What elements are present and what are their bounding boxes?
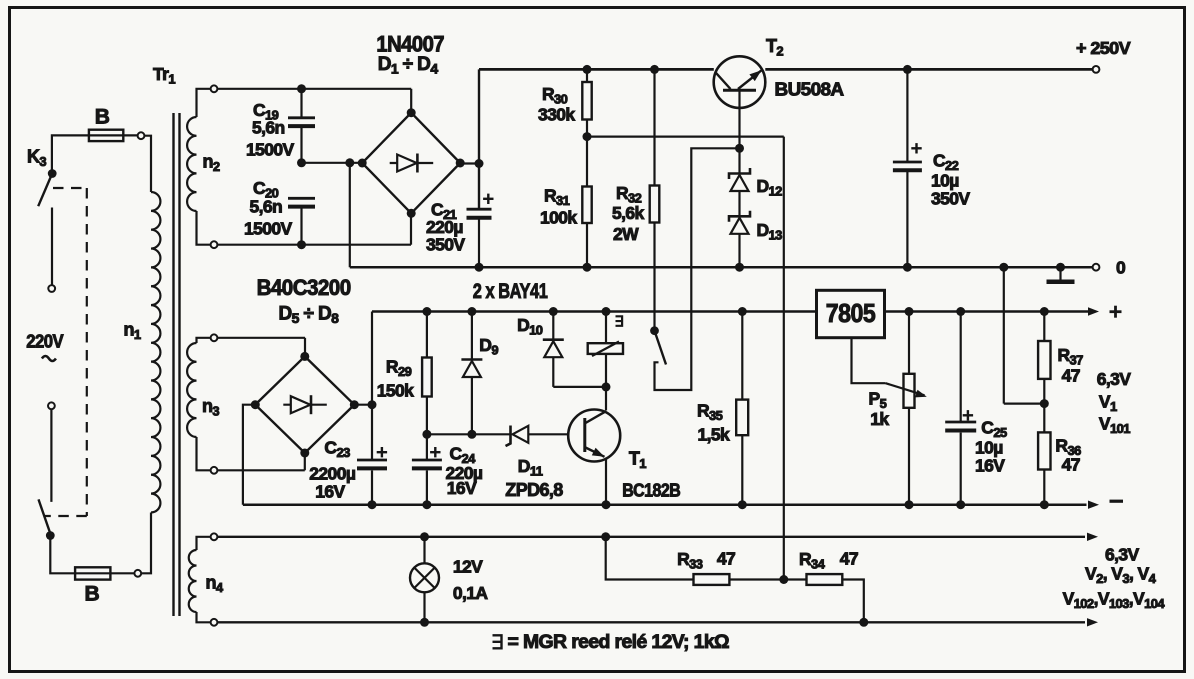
label C24 value bbox=[446, 463, 483, 483]
label D9 bbox=[479, 335, 498, 358]
node C24 bottom bbox=[422, 500, 431, 509]
svg-text:n1: n1 bbox=[124, 320, 141, 343]
zener D12 bbox=[729, 148, 750, 191]
wire n3 bottom bbox=[217, 453, 304, 470]
label K3 bbox=[27, 147, 46, 170]
svg-text:K3: K3 bbox=[27, 147, 46, 170]
transistor T1 bbox=[568, 410, 620, 462]
node C25 bottom bbox=[956, 500, 965, 509]
wire sense to 0 bbox=[1004, 267, 1045, 403]
label BU508A bbox=[775, 79, 844, 100]
resistor R37 bbox=[1038, 312, 1050, 404]
label R32 power bbox=[613, 224, 639, 244]
label D1-D4 bbox=[378, 54, 439, 77]
svg-text:C23: C23 bbox=[324, 438, 350, 461]
label C22 value bbox=[931, 171, 959, 191]
svg-text:Tr1: Tr1 bbox=[153, 64, 175, 87]
label BC182B bbox=[622, 481, 681, 501]
node R36 bottom bbox=[1040, 500, 1049, 509]
wire fuse to n1 bottom bbox=[141, 513, 151, 574]
winding n3 bbox=[187, 338, 211, 471]
label P5 value bbox=[870, 409, 889, 429]
label C23 bbox=[324, 438, 350, 461]
node R35 bottom bbox=[738, 500, 747, 509]
node T1 emitter bbox=[602, 500, 611, 509]
wire bridge2 minus bbox=[243, 405, 255, 505]
capacitor C20 bbox=[288, 198, 315, 244]
wire n3 top bbox=[217, 338, 305, 357]
label C25 voltage bbox=[975, 456, 1005, 476]
svg-text:47: 47 bbox=[1062, 366, 1080, 386]
node sense bottom bbox=[779, 575, 788, 584]
label C19 value bbox=[252, 118, 285, 138]
diode D10 bbox=[543, 312, 564, 387]
label minus bbox=[1110, 500, 1124, 503]
label C23 voltage bbox=[315, 482, 345, 502]
wire R34 out bbox=[842, 580, 864, 623]
label R32 value bbox=[612, 203, 645, 223]
label R29 value bbox=[377, 381, 414, 401]
label n4 bbox=[206, 573, 224, 596]
svg-text:BC182B: BC182B bbox=[622, 481, 681, 501]
fuse B top bbox=[89, 130, 145, 141]
svg-text:0: 0 bbox=[1116, 258, 1126, 278]
label C20 bbox=[253, 178, 279, 201]
label B top bbox=[95, 106, 110, 129]
wire riser to bridge1 top bbox=[410, 89, 412, 113]
terminal n4 top bbox=[211, 533, 218, 540]
node R34 bottom bbox=[859, 618, 868, 627]
label C24 bbox=[450, 444, 477, 467]
node R37/R36 bbox=[1040, 399, 1049, 408]
wire 0 rail bbox=[350, 266, 1093, 269]
svg-text:150k: 150k bbox=[377, 381, 414, 401]
label R36 value bbox=[1062, 455, 1080, 475]
node R29 top bbox=[422, 307, 431, 316]
terminal +250V bbox=[1093, 66, 1100, 73]
svg-text:2W: 2W bbox=[613, 224, 639, 244]
svg-text:R31: R31 bbox=[544, 186, 570, 209]
label C20 voltage bbox=[244, 219, 293, 239]
svg-text:B: B bbox=[95, 106, 110, 129]
label R37 bbox=[1058, 345, 1084, 368]
capacitor C25 bbox=[945, 312, 976, 505]
label R35 bbox=[697, 401, 723, 424]
svg-text:10µ: 10µ bbox=[931, 171, 959, 191]
transformer core bbox=[174, 113, 180, 616]
label +250V bbox=[1076, 38, 1131, 58]
arrow heater top bbox=[1087, 533, 1098, 541]
label 6,3V mid bbox=[1097, 369, 1132, 389]
wire T2 base stem bbox=[738, 92, 740, 149]
zener D11 bbox=[427, 426, 585, 447]
node D13 bottom bbox=[735, 263, 744, 272]
svg-text:1k: 1k bbox=[870, 409, 889, 429]
label Tr1 bbox=[153, 64, 175, 87]
svg-text:R33: R33 bbox=[677, 549, 703, 572]
label B40C3200 bbox=[257, 275, 351, 300]
label C21 voltage bbox=[426, 235, 465, 255]
note reed relay bbox=[493, 632, 730, 653]
svg-text:6,3V: 6,3V bbox=[1105, 545, 1140, 565]
wire takeoff to R33 bbox=[606, 537, 694, 580]
resistor R34 bbox=[784, 574, 843, 585]
label R33 bbox=[677, 549, 703, 572]
svg-text:1500V: 1500V bbox=[244, 219, 293, 239]
svg-text:R37: R37 bbox=[1058, 345, 1084, 368]
wire heater top rail bbox=[217, 536, 1085, 538]
node R31 bottom bbox=[583, 263, 592, 272]
svg-text:n2: n2 bbox=[203, 152, 220, 175]
svg-text:P5: P5 bbox=[869, 389, 887, 412]
svg-text:2 x BAY41: 2 x BAY41 bbox=[473, 279, 548, 303]
label 7805 bbox=[826, 298, 876, 328]
svg-text:6,3V: 6,3V bbox=[1097, 369, 1132, 389]
pot P5 wiper bbox=[886, 383, 927, 397]
ground symbol bbox=[1047, 267, 1075, 282]
svg-text:47: 47 bbox=[1062, 455, 1080, 475]
relay coil bbox=[588, 312, 623, 357]
label D10 bbox=[517, 315, 543, 338]
node 0V takeoff bbox=[345, 158, 354, 167]
label C22 bbox=[933, 151, 959, 174]
svg-text:12V: 12V bbox=[453, 557, 483, 577]
label 12V bbox=[453, 557, 483, 577]
resistor R33 bbox=[694, 574, 784, 585]
node lamp bottom bbox=[420, 618, 429, 627]
label T1 bbox=[629, 449, 646, 472]
node R37 top bbox=[1040, 307, 1049, 316]
svg-text:B: B bbox=[85, 583, 100, 606]
arrow heater bottom bbox=[1087, 618, 1098, 626]
label D12 bbox=[757, 176, 783, 199]
node R29 bottom bbox=[422, 430, 431, 439]
svg-text:D12: D12 bbox=[757, 176, 783, 199]
node C23 top bbox=[368, 400, 377, 409]
svg-text:1500V: 1500V bbox=[246, 140, 295, 160]
label R37 value bbox=[1062, 366, 1080, 386]
node C19/C20 mid bbox=[297, 158, 306, 167]
fuse B bottom bbox=[75, 567, 141, 579]
svg-text:16V: 16V bbox=[315, 482, 345, 502]
label 0 bbox=[1116, 258, 1126, 278]
label n1 bbox=[124, 320, 141, 343]
capacitor C21 bbox=[467, 194, 494, 268]
wire bridge2 plus bbox=[354, 404, 372, 406]
label R29 bbox=[386, 357, 412, 380]
wire 7805 gnd bbox=[852, 338, 886, 384]
node R30 top bbox=[583, 65, 592, 74]
svg-text:D10: D10 bbox=[517, 315, 543, 338]
terminal n3 top bbox=[211, 334, 218, 341]
node D10 top bbox=[549, 307, 558, 316]
wire fuse to n1 top bbox=[144, 136, 151, 192]
node T2 base bbox=[735, 144, 744, 153]
capacitor C24 bbox=[412, 434, 442, 504]
label V101 bbox=[1099, 414, 1130, 437]
resistor R29 bbox=[422, 312, 432, 435]
regulator 7805 bbox=[817, 290, 885, 337]
node lamp top bbox=[420, 532, 429, 541]
node bridge1 out bbox=[475, 159, 484, 168]
label V1 bbox=[1099, 392, 1117, 415]
ac tilde symbol bbox=[42, 356, 56, 361]
svg-text:47: 47 bbox=[717, 549, 735, 569]
svg-text:V101: V101 bbox=[1099, 414, 1130, 437]
wire midpoint to bridge bbox=[302, 162, 363, 164]
svg-text:5,6n: 5,6n bbox=[252, 118, 285, 138]
node C25 top bbox=[956, 307, 965, 316]
label 220V bbox=[26, 331, 64, 352]
label 1N4007 bbox=[376, 32, 444, 57]
potentiometer P5 bbox=[904, 312, 915, 505]
label R33 value bbox=[717, 549, 735, 569]
svg-text:350V: 350V bbox=[931, 189, 970, 209]
svg-text:B40C3200: B40C3200 bbox=[257, 275, 351, 300]
terminal n4 bottom bbox=[211, 619, 218, 626]
svg-text:R30: R30 bbox=[542, 84, 568, 107]
svg-text:220V: 220V bbox=[26, 331, 64, 352]
switch K3 upper pole bbox=[38, 135, 89, 292]
node C21 bottom bbox=[475, 263, 484, 272]
wire base sense bbox=[587, 136, 784, 138]
svg-text:n4: n4 bbox=[206, 573, 224, 596]
resistor R31 bbox=[582, 137, 591, 268]
svg-text:2200µ: 2200µ bbox=[309, 464, 356, 484]
node C23 bottom bbox=[368, 500, 377, 509]
wire n2 bottom bbox=[217, 213, 411, 249]
wire +250V rail right bbox=[765, 68, 1092, 71]
wire minus rail bbox=[243, 503, 1087, 506]
winding n2 bbox=[187, 89, 211, 245]
wire +250V rail left bbox=[479, 68, 714, 71]
svg-text:D13: D13 bbox=[757, 220, 783, 243]
label C25 bbox=[981, 418, 1007, 441]
svg-text:T1: T1 bbox=[629, 449, 646, 472]
transistor T2 bbox=[714, 56, 766, 108]
label P5 bbox=[869, 389, 887, 412]
label C19 bbox=[253, 100, 279, 123]
label R34 bbox=[799, 549, 826, 572]
node D9 bottom bbox=[467, 430, 476, 439]
svg-text:330k: 330k bbox=[538, 105, 575, 125]
svg-text:V102,V103,V104: V102,V103,V104 bbox=[1063, 589, 1166, 612]
wire riser to +12 rail bbox=[371, 312, 373, 405]
winding n1 bbox=[151, 192, 160, 512]
svg-text:V2, V3, V4: V2, V3, V4 bbox=[1085, 564, 1157, 587]
svg-text:= MGR reed relé 12V; 1kΩ: = MGR reed relé 12V; 1kΩ bbox=[508, 632, 730, 653]
label R32 bbox=[616, 183, 642, 206]
svg-text:R35: R35 bbox=[697, 401, 723, 424]
arrow minus rail bbox=[1088, 501, 1099, 509]
svg-text:7805: 7805 bbox=[826, 298, 876, 328]
node relay coil top bbox=[602, 307, 611, 316]
node ground bbox=[1056, 263, 1065, 272]
svg-text:D9: D9 bbox=[479, 335, 498, 358]
label R30 bbox=[542, 84, 568, 107]
label D11 bbox=[518, 456, 543, 479]
svg-text:1N4007: 1N4007 bbox=[376, 32, 444, 57]
label V102 V103 V104 bbox=[1063, 589, 1166, 612]
label C19 voltage bbox=[246, 140, 295, 160]
terminal n3 bottom bbox=[211, 467, 218, 474]
capacitor C22 bbox=[893, 69, 922, 267]
label 0,1A bbox=[453, 583, 489, 603]
label R36 bbox=[1055, 436, 1081, 459]
label R35 value bbox=[698, 425, 731, 445]
label C21 value bbox=[426, 217, 463, 237]
label C23 value bbox=[309, 464, 356, 484]
svg-text:350V: 350V bbox=[426, 235, 465, 255]
svg-text:10µ: 10µ bbox=[975, 438, 1003, 458]
svg-text:V1: V1 bbox=[1099, 392, 1117, 415]
wire HV riser bbox=[478, 69, 480, 209]
node D9 top bbox=[467, 307, 476, 316]
reed contact bbox=[650, 148, 737, 390]
wire heater bottom rail bbox=[217, 621, 1085, 623]
svg-text:BU508A: BU508A bbox=[775, 79, 844, 100]
lamp 12V bbox=[410, 537, 439, 623]
terminal n2 top bbox=[211, 85, 218, 92]
wire +12 rail bbox=[372, 310, 817, 313]
node R36R37 drop bbox=[999, 263, 1008, 272]
label 2xBAY41 bbox=[473, 279, 548, 303]
dashed mechanical link bbox=[45, 188, 87, 516]
bridge rectifier D5-D8 bbox=[251, 352, 359, 458]
label R30 value bbox=[538, 105, 575, 125]
label C25 value bbox=[975, 438, 1003, 458]
node C19 top bbox=[297, 84, 306, 93]
svg-text:47: 47 bbox=[840, 549, 858, 569]
label C22 voltage bbox=[931, 189, 970, 209]
resistor R36 bbox=[1038, 404, 1050, 505]
label R31 value bbox=[540, 208, 577, 228]
terminal 0V bbox=[1093, 264, 1100, 271]
winding n4 bbox=[189, 537, 211, 623]
svg-text:R34: R34 bbox=[799, 549, 826, 572]
wire 0V drop bbox=[349, 163, 351, 267]
svg-text:R29: R29 bbox=[386, 357, 412, 380]
resistor R30 bbox=[582, 69, 591, 136]
bridge rectifier D1-D4 bbox=[358, 108, 465, 218]
label C21 bbox=[431, 200, 457, 223]
label 6,3V bottom bbox=[1105, 545, 1140, 565]
wire D13 to 0 rail bbox=[738, 234, 740, 267]
label n2 bbox=[203, 152, 220, 175]
node C22 top bbox=[903, 65, 912, 74]
wire bridge1 out bbox=[460, 162, 479, 164]
svg-text:n3: n3 bbox=[202, 396, 219, 419]
node P5 bottom bbox=[905, 500, 914, 509]
wire +5 rail bbox=[885, 310, 1090, 313]
label T2 bbox=[766, 36, 783, 59]
label V2 V3 V4 bbox=[1085, 564, 1157, 587]
arrow plus rail bbox=[1088, 307, 1099, 315]
wire D10 to relay node bbox=[553, 386, 606, 388]
label R34 value bbox=[840, 549, 858, 569]
node heater takeoff bbox=[601, 532, 610, 541]
svg-text:D5 ÷ D8: D5 ÷ D8 bbox=[279, 304, 340, 327]
capacitor C19 bbox=[288, 89, 315, 163]
label n3 bbox=[202, 396, 219, 419]
node R30/R31 bbox=[583, 132, 592, 141]
svg-text:16V: 16V bbox=[975, 456, 1005, 476]
svg-text:+ 250V: + 250V bbox=[1076, 38, 1131, 58]
label B bottom bbox=[85, 583, 100, 606]
resistor R35 bbox=[736, 312, 748, 505]
svg-text:T2: T2 bbox=[766, 36, 783, 59]
wire T1 emitter bbox=[605, 458, 607, 505]
capacitor C23 bbox=[357, 405, 387, 505]
svg-text:1,5k: 1,5k bbox=[698, 425, 731, 445]
svg-text:5,6n: 5,6n bbox=[250, 197, 283, 217]
wire n2 top rail bbox=[217, 88, 411, 90]
label D5-D8 bbox=[279, 304, 340, 327]
svg-text:D11: D11 bbox=[518, 456, 543, 479]
zener D13 bbox=[729, 191, 750, 234]
label D13 bbox=[757, 220, 783, 243]
label ZPD6,8 bbox=[505, 480, 563, 500]
label plus bbox=[1110, 306, 1122, 318]
svg-text:5,6k: 5,6k bbox=[612, 203, 645, 223]
svg-text:0,1A: 0,1A bbox=[453, 583, 489, 603]
terminal n2 bottom bbox=[211, 241, 218, 248]
svg-text:16V: 16V bbox=[447, 478, 477, 498]
svg-text:ZPD6,8: ZPD6,8 bbox=[505, 480, 563, 500]
svg-text:100k: 100k bbox=[540, 208, 577, 228]
label relay bbox=[616, 316, 623, 326]
label C20 value bbox=[250, 197, 283, 217]
diode D9 bbox=[461, 312, 482, 435]
node P5 top bbox=[905, 307, 914, 316]
node R32 top bbox=[650, 65, 659, 74]
node R35 top bbox=[738, 307, 747, 316]
switch K3 lower pole bbox=[39, 402, 76, 573]
label C24 voltage bbox=[447, 478, 477, 498]
wire relay to T1 bbox=[602, 354, 611, 411]
label R31 bbox=[544, 186, 570, 209]
svg-text:D1 ÷ D4: D1 ÷ D4 bbox=[378, 54, 439, 77]
resistor R32 bbox=[650, 69, 660, 330]
node C22 bottom bbox=[903, 263, 912, 272]
wire sense drop bbox=[783, 137, 785, 580]
